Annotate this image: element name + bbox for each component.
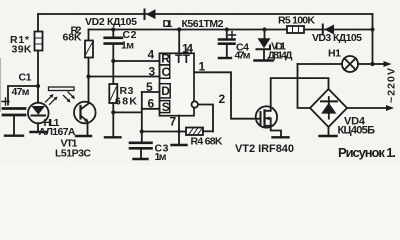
pin 2 inversion bubble	[192, 101, 198, 107]
svg-text:R5 100K: R5 100K	[278, 15, 315, 27]
diode VD2	[145, 9, 156, 19]
light arrows from HL1	[46, 94, 58, 105]
svg-text:Д814Д: Д814Д	[268, 50, 294, 62]
junction dot	[111, 110, 115, 114]
svg-text:S: S	[162, 100, 170, 114]
svg-text:47м: 47м	[235, 50, 251, 62]
svg-text:Рисунок 1.: Рисунок 1.	[338, 145, 396, 160]
svg-text:VT2 IRF840: VT2 IRF840	[235, 143, 294, 155]
pin 14 wire	[178, 30, 180, 54]
lamp H1	[298, 56, 373, 72]
wire right vertical	[372, 14, 374, 64]
polarity plus C1	[2, 98, 9, 105]
svg-text:R4 68K: R4 68K	[191, 136, 223, 148]
pin 4 wire	[113, 60, 159, 62]
pin 3 wire	[89, 76, 160, 78]
wire DS node vertical	[141, 92, 143, 143]
junction dot	[370, 27, 374, 31]
light arrows into VT1	[64, 92, 76, 103]
resistor R1	[35, 14, 43, 86]
resistor R4	[186, 128, 213, 136]
svg-text:~220V: ~220V	[386, 68, 398, 103]
ground HL1	[31, 131, 47, 133]
scan edge artifact	[0, 58, 2, 112]
wire second rail	[89, 29, 373, 31]
svg-text:VD2 КД105: VD2 КД105	[85, 16, 137, 28]
junction dot	[86, 74, 90, 78]
svg-text:5: 5	[146, 80, 153, 94]
ground C3	[134, 158, 148, 160]
ground VT1	[76, 135, 91, 137]
diode VD3	[323, 25, 334, 35]
pin 7 wire	[178, 116, 180, 145]
polarity plus C4	[229, 32, 236, 39]
bridge rectifier VD4	[310, 89, 347, 136]
LED HL1	[28, 86, 49, 132]
svg-text:14: 14	[182, 42, 193, 56]
resistor R2	[85, 30, 93, 77]
svg-text:L51Р3С: L51Р3С	[55, 148, 91, 160]
svg-text:6: 6	[148, 96, 155, 110]
svg-text:2: 2	[219, 92, 226, 106]
screen shutter	[49, 87, 75, 91]
wire top rail	[38, 13, 373, 15]
pin 5 wire	[142, 91, 160, 93]
capacitor C4	[219, 30, 235, 58]
junction dot	[370, 62, 374, 66]
zener VD1	[257, 30, 271, 61]
svg-text:68K: 68K	[63, 32, 82, 44]
svg-text:39K: 39K	[12, 44, 32, 56]
IC U1 K561TM2 body	[160, 53, 195, 115]
junction dot	[111, 59, 115, 63]
junction dot	[36, 84, 40, 88]
capacitor C2	[105, 30, 122, 62]
ground C4	[219, 57, 231, 59]
junction dot	[111, 27, 115, 31]
svg-text:1: 1	[199, 60, 206, 74]
svg-text:К561ТМ2: К561ТМ2	[182, 18, 224, 30]
ground VT2 source	[273, 136, 289, 138]
ground VD4	[320, 135, 337, 137]
junction dot	[177, 27, 181, 31]
pin 2 wire	[198, 105, 213, 132]
svg-text:D1: D1	[163, 18, 173, 30]
svg-text:VD3 КД105: VD3 КД105	[312, 32, 362, 44]
svg-text:КЦ405Б: КЦ405Б	[338, 125, 376, 137]
svg-text:C: C	[162, 65, 171, 79]
svg-text:1м: 1м	[121, 40, 134, 52]
pin 1 wire to VT2 gate	[194, 72, 261, 118]
capacitor C1	[3, 86, 38, 135]
svg-text:D: D	[161, 84, 170, 98]
svg-text:C1: C1	[19, 72, 32, 84]
pin 6 wire	[142, 108, 160, 110]
junction dot	[177, 130, 180, 133]
phototransistor VT1	[74, 77, 96, 136]
ground C1	[5, 134, 23, 136]
ground pin7	[172, 144, 187, 146]
mains arrow top	[373, 63, 385, 65]
mains arrow bottom	[347, 107, 386, 109]
capacitor C3	[130, 143, 152, 159]
junction dot	[262, 27, 266, 31]
svg-text:3: 3	[149, 64, 156, 78]
svg-text:7: 7	[170, 115, 177, 129]
svg-text:АЛ167А: АЛ167А	[39, 126, 76, 138]
wire to bridge AC left	[298, 64, 311, 108]
mosfet VT2	[256, 78, 329, 137]
svg-text:4: 4	[148, 48, 155, 62]
wire DS node to R4	[142, 131, 186, 133]
svg-text:1м: 1м	[155, 151, 167, 163]
svg-text:68K: 68K	[115, 96, 137, 108]
svg-text:R: R	[161, 52, 170, 66]
svg-text:H1: H1	[328, 48, 341, 60]
junction dot	[140, 129, 144, 133]
wire R3 to DS node	[113, 111, 142, 113]
svg-text:47м: 47м	[12, 86, 30, 98]
resistor R3	[109, 61, 117, 137]
ground R3	[105, 136, 121, 138]
junction dot	[225, 27, 229, 31]
resistor R5	[287, 26, 304, 33]
ground VD1	[255, 59, 273, 61]
